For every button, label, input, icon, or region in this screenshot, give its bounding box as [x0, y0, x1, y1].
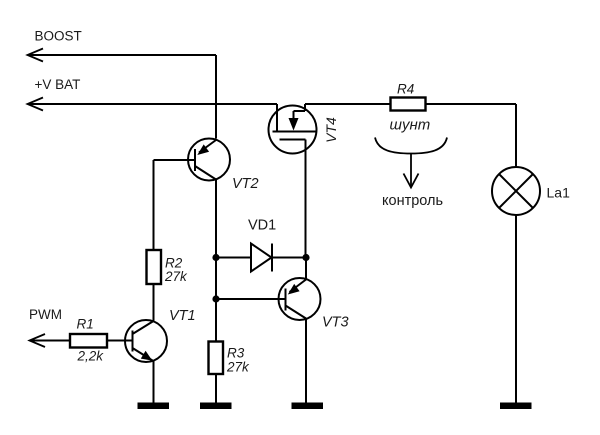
svg-text:R4: R4 [397, 82, 414, 97]
label kontrol [382, 193, 443, 209]
label R1 2,2k [77, 317, 105, 364]
svg-text:La1: La1 [547, 185, 571, 201]
label R4 [397, 82, 414, 97]
wire VT2 collector down to R3 [215, 180, 217, 342]
svg-text:VT2: VT2 [232, 176, 259, 192]
svg-text:VD1: VD1 [248, 218, 276, 234]
ground (VT3) [292, 403, 324, 410]
label R3 27k [226, 346, 250, 375]
label VT3 [322, 315, 349, 331]
wire VD1 cathode to VT3 collector [305, 258, 307, 280]
svg-text:R1: R1 [77, 317, 94, 332]
wire R2 to VT1 collector [153, 284, 155, 321]
node +V BAT label [35, 77, 81, 92]
resistor R3 [209, 342, 224, 375]
wire VT4 to R4 [305, 103, 391, 105]
svg-text:BOOST: BOOST [35, 29, 82, 44]
lamp La1 [492, 167, 540, 215]
wire R4 to lamp [426, 104, 516, 167]
label La1 [547, 185, 571, 201]
wire VT1 emitter to ground [153, 361, 155, 403]
wire VT2 base to R2 [154, 160, 196, 250]
transistor VT1 [125, 320, 167, 362]
svg-text:+V BAT: +V BAT [35, 77, 81, 92]
svg-text:VT1: VT1 [169, 308, 196, 324]
transistor VT4 (MOSFET) [269, 104, 317, 154]
svg-text:PWM: PWM [29, 307, 62, 322]
label R2 27k [164, 256, 188, 285]
arrow kontrol [404, 154, 419, 188]
svg-text:шунт: шунт [390, 117, 431, 134]
svg-text:27k: 27k [226, 360, 250, 375]
wire BOOST with left arrow [28, 49, 217, 139]
svg-text:VT4: VT4 [323, 117, 339, 143]
label VD1 [248, 218, 276, 234]
wire VT3 emitter to ground [305, 319, 307, 404]
wire lamp to ground [515, 215, 517, 403]
svg-text:R3: R3 [227, 346, 245, 361]
transistor VT3 [279, 278, 321, 320]
ground (R3) [200, 403, 232, 410]
wire VT4 gate to VD1/VT3 [305, 140, 307, 258]
label VT1 [169, 308, 196, 324]
node junction VT3 base [212, 295, 219, 302]
svg-text:VT3: VT3 [322, 315, 349, 331]
node junction diode cathode [302, 254, 309, 261]
svg-text:2,2k: 2,2k [77, 349, 105, 364]
node junction diode anode [212, 254, 219, 261]
brace curve under shunt [375, 138, 447, 154]
ground (La1) [500, 403, 532, 410]
resistor R1 [70, 334, 107, 348]
resistor R4 [391, 98, 426, 111]
node PWM label [29, 307, 62, 322]
resistor R2 [147, 250, 162, 284]
wire R3 to ground [215, 374, 217, 403]
svg-text:27k: 27k [164, 269, 188, 284]
wire +V BAT with left arrow [28, 98, 278, 111]
label VT2 [232, 176, 259, 192]
transistor VT2 [188, 139, 230, 181]
svg-text:контроль: контроль [382, 193, 443, 209]
label VT4 (rotated) [323, 117, 339, 143]
ground (VT1) [138, 403, 170, 410]
node BOOST label [35, 29, 82, 44]
wire PWM with left arrow [30, 334, 71, 347]
wire VT3 base [216, 298, 286, 300]
diode VD1 [216, 244, 306, 272]
wire R1 to VT1 base [107, 340, 133, 342]
label shunt [390, 117, 431, 134]
